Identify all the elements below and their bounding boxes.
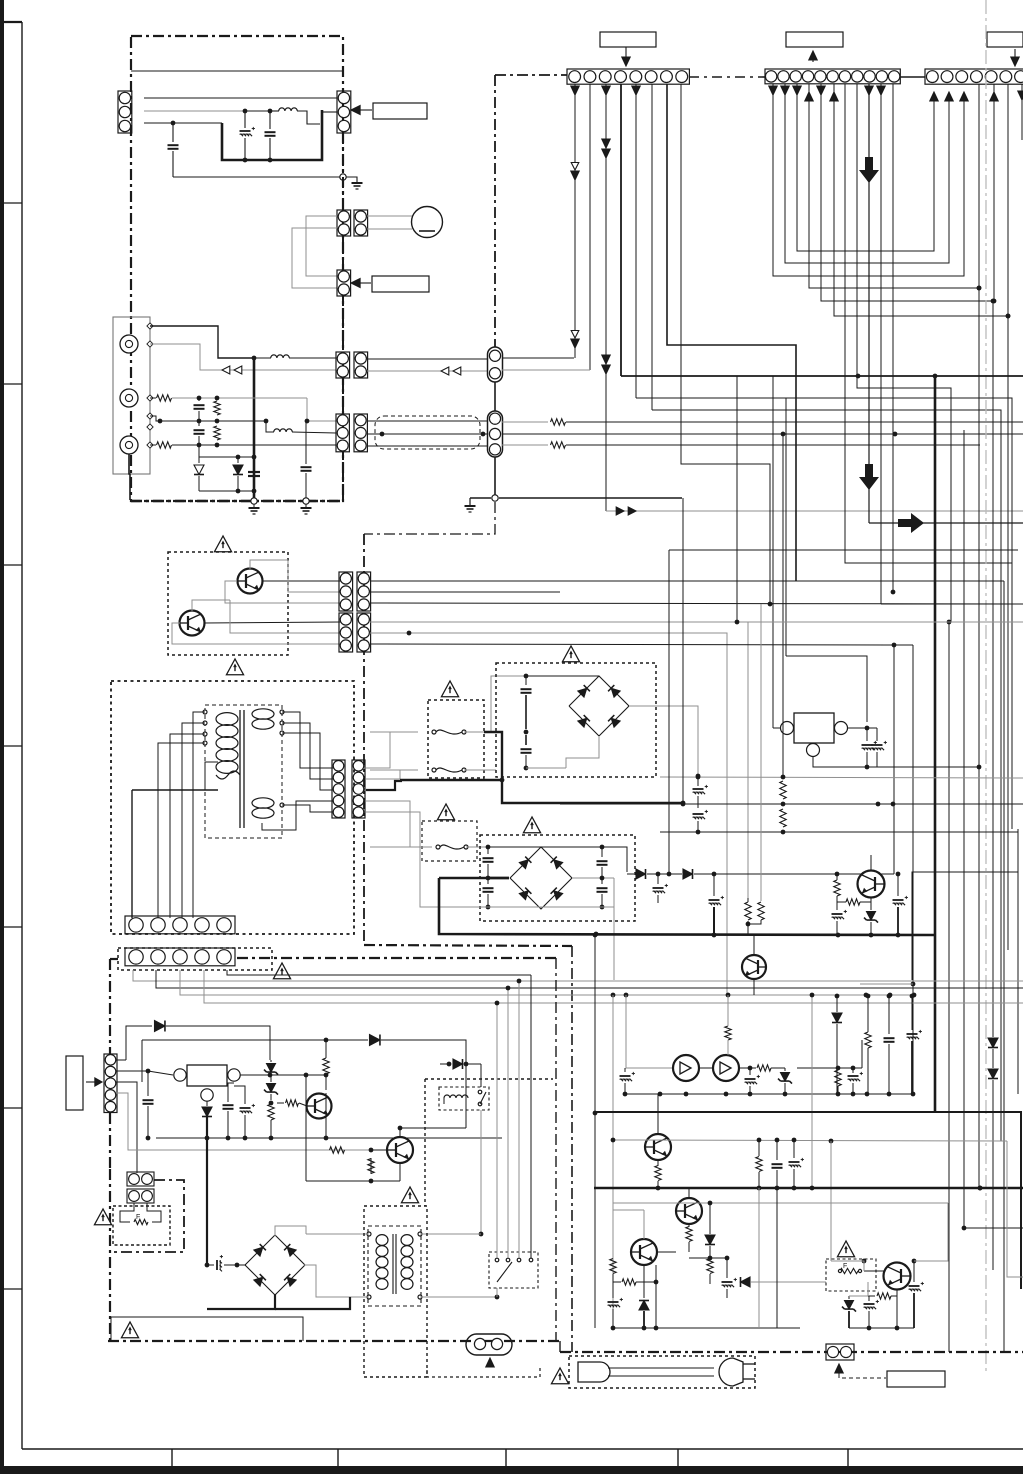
warning triangle above rectifier 2 [523, 817, 540, 833]
signal bus y603 [370, 603, 1018, 604]
resistor R401 [268, 1104, 274, 1120]
connector pair CN106a (2-pin) [336, 352, 350, 378]
bottom rail right section [849, 1327, 914, 1329]
wire Q503 emitter [655, 1265, 657, 1302]
wire y550 [669, 549, 1018, 551]
signal bus y592 [370, 591, 560, 593]
transformer T101 dashed box [205, 705, 282, 838]
connector CN208a (3-pin) [339, 572, 353, 611]
fusible resistor FR501 (F) [840, 1268, 858, 1273]
bottom border dash-dot left part [108, 1340, 560, 1342]
IC301 regulator body [794, 713, 834, 743]
connector pair CN107a (3-pin) [336, 414, 349, 452]
common terminal jog wire [150, 416, 160, 421]
wire from gray rail to Q504 section [914, 1203, 948, 1261]
chassis ground symbol [346, 177, 357, 182]
bridge2 output caps [597, 860, 608, 862]
zener ZD503 [849, 1295, 861, 1297]
outer border dash-dot [364, 945, 572, 946]
heavy dash-dot border from CN401 left [110, 958, 118, 960]
C508 electrolytic [867, 1296, 869, 1300]
CN302 riser to fuse F303 [366, 801, 424, 847]
CN302 pin5 wire down (gray) [366, 812, 432, 907]
fuse F301 [370, 731, 417, 733]
resistor R103 (vertical) [214, 401, 220, 415]
label box CN105 [372, 276, 429, 292]
bottom rail y1094 [625, 1093, 914, 1095]
transistor Q202 [180, 611, 205, 636]
wire into FR501 [831, 1271, 840, 1282]
wire mid pin of P102 [502, 433, 895, 435]
motor M101 [412, 207, 443, 238]
transistor Q301 [858, 871, 885, 898]
bridge rectifier D303 (diamond) [569, 676, 629, 736]
rail y1228 right [964, 1227, 1023, 1229]
zener ZD502 [643, 1265, 645, 1298]
output caps C307 C308 (electrolytic pair) [866, 728, 868, 741]
label box CN203 [987, 32, 1023, 47]
primary tap wires to connector row [193, 712, 205, 918]
R505 vertical [610, 1259, 616, 1274]
loop wire CN103 pin1 to CN105 [306, 216, 337, 276]
C502 electrolytic [749, 1068, 751, 1075]
inductor L103 [274, 429, 293, 432]
CN201 pin6 drop wire [651, 84, 653, 410]
wire to regulator IC401 [116, 1070, 148, 1072]
gray rail under bridge2 [430, 906, 614, 908]
junction x595 y935 [594, 934, 596, 936]
ground symbol 2 below board [305, 504, 307, 507]
CN302 riser to fuse F301 [366, 732, 418, 768]
warning triangle above FR501 [837, 1241, 854, 1257]
R502 vertical [835, 1070, 841, 1086]
T401 primary winding [376, 1235, 388, 1246]
connector row CN401 (5-pin) in dotted box [118, 948, 272, 970]
gray wire y592 junction [891, 590, 896, 595]
arrow up to CN404 [838, 1366, 840, 1374]
photocoupler PC401 (circle with triangle) [673, 1055, 699, 1081]
T101 secondary top winding [252, 709, 274, 719]
signal bus y581 to right [370, 580, 1004, 582]
R501 after coupler [739, 1067, 756, 1069]
primary start wire [205, 762, 218, 790]
arrow from connector up to label [812, 53, 814, 62]
connector CN209b (3-pin) [357, 613, 371, 652]
diode D306 [683, 869, 693, 879]
ground return wire to chassis [173, 176, 340, 178]
dashed box fusible resistor [113, 1206, 170, 1245]
AC socket J401 [466, 1334, 512, 1355]
IC301 output terminal [835, 722, 848, 735]
T401 secondary winding [401, 1235, 413, 1246]
wire bottom pin thick path [144, 122, 222, 124]
T101 core [239, 710, 241, 828]
wire long vertical x759 x777 [758, 1188, 760, 1328]
wire x993 bottom [993, 1080, 1023, 1268]
CN202 pin3 wire staircase [797, 84, 934, 251]
R504 vertical on rail [756, 1157, 762, 1172]
electrolytic C501 [624, 1068, 626, 1072]
svg-text:F: F [136, 1214, 140, 1221]
CN203 pin5 drop [993, 84, 995, 301]
connector CN104 (2-pin) [354, 210, 368, 236]
Q401 emitter to rail [325, 1093, 327, 1118]
bus y604 [370, 603, 1023, 605]
diode D404 at relay [440, 1063, 451, 1065]
AC power switch SW401 (dashed box) [489, 1252, 538, 1288]
Q402 wires [399, 1128, 401, 1137]
warning triangle above fuse box 2 [437, 804, 454, 820]
bus vertical x979 [978, 288, 980, 1188]
transistor Q402 [387, 1137, 413, 1163]
R506 horizontal [613, 1281, 621, 1283]
fold line (light gray dash-dot) [985, 0, 987, 1372]
Q504 wires [868, 1271, 884, 1276]
R402 horizontal to Q401 base [277, 1102, 284, 1104]
C506 electrolytic [612, 1274, 614, 1298]
capacitor C108 [305, 421, 307, 464]
bus vertical x964 [963, 430, 965, 1228]
bus y358 from jack area to pin1 [502, 357, 574, 359]
dotted box around T401 area [364, 1206, 427, 1377]
connector CN203 (7-pin row) [925, 69, 1023, 84]
CN203 pin7 drop [1021, 84, 1023, 140]
warning triangle above fuse box 1 [441, 681, 458, 697]
resistor R403 (vertical right) [323, 1058, 329, 1074]
resistor R301 (vertical) [780, 781, 786, 799]
ground bus wire to right [499, 497, 682, 499]
warning triangle right of CN401 [273, 963, 290, 979]
vertical wire x605 left rail [612, 995, 614, 1328]
page border left thick bar [0, 0, 4, 1474]
wire rail 1258 to 1282 [656, 1281, 710, 1283]
CN201 pin1 drop wire [574, 84, 576, 358]
branch x894 to Q301 [893, 645, 895, 874]
resistor pair R307 R308 [745, 902, 751, 920]
left margin column [21, 22, 23, 1449]
gray rail 984 [860, 983, 913, 985]
fusible resistor FR401 [120, 1203, 134, 1222]
junction dots on AC line [171, 121, 176, 126]
C310 electrolytic [896, 872, 901, 877]
junction dots right bundle [977, 286, 982, 291]
section border corner at bottom of P102 [364, 502, 495, 534]
wires to motor (gray) [367, 215, 412, 217]
dotted fuse box F303 [422, 821, 477, 861]
dashed leader to label [839, 1374, 886, 1378]
protection diode D102 (zener) [237, 457, 239, 463]
label box CN202 [786, 32, 843, 47]
staircase return right [912, 832, 1018, 980]
capacitor C103 (electrolytic) [244, 111, 246, 128]
CN202 pin5 wire [821, 84, 993, 301]
input cap C401 [147, 1071, 149, 1096]
verticals to bottom rail [655, 1302, 657, 1328]
heavy return path of bridge2 [439, 878, 935, 935]
signal bus y644 [370, 644, 913, 645]
inline connector P102 (3-pin oval) [488, 411, 503, 457]
bus vertical x1012 [1011, 563, 1013, 829]
dotted box bridge rectifier 2 [480, 835, 635, 921]
bottom title block row [22, 1448, 1023, 1450]
signal bus y622 (gray) [370, 622, 748, 898]
wire J101 center (gray) with arrows [150, 344, 336, 370]
board border bottom (dash-dot) [131, 500, 343, 502]
rail y1277 right [1007, 1141, 1023, 1277]
zener ZD501 [781, 1073, 790, 1082]
photocoupler PC402 [713, 1055, 739, 1081]
rail y1203 gray [613, 1202, 948, 1204]
diode D401 [116, 1059, 126, 1061]
junction x913 y984 [911, 982, 916, 987]
chassis node (open circle) [340, 174, 346, 180]
connector CN103 (2-pin) [337, 210, 351, 236]
signal wire with arrows to right (gray) [606, 510, 1023, 512]
C505 electrolytic [793, 1140, 795, 1158]
left margin row dividers [2, 202, 22, 204]
ground bus node (open circle) [492, 495, 498, 501]
vertical gray pair to bottom [758, 1188, 760, 1328]
cap C306 (electrolytic) [713, 874, 715, 896]
vertical wire x669 [668, 550, 670, 874]
wire y388 [857, 387, 951, 389]
diode D302 [988, 1069, 998, 1079]
capacitor C511 electrolytic [911, 996, 913, 1030]
vertical wire x595 [594, 935, 596, 1328]
connector CN208b (3-pin) [357, 572, 371, 611]
wires at 1068 right [797, 1067, 862, 1069]
gray rail y777 [660, 777, 1023, 778]
diode D402 on ground leg [206, 1101, 208, 1106]
CN201 pin5 drop wire [635, 84, 637, 398]
shielded cable wires [367, 420, 488, 422]
T401 primary wires [306, 1233, 369, 1235]
IC301 ground terminal [807, 744, 820, 757]
RCA jack J101 [120, 335, 138, 353]
section border vertical dash-dot x495 [494, 75, 496, 347]
gray rail y1140 [613, 1140, 1007, 1141]
IC301 top bypass wire [786, 656, 867, 722]
thin wire step to border [111, 1317, 303, 1341]
inner horizontal line of top-left box [131, 70, 343, 72]
protection diode D101 (open) [198, 445, 200, 457]
diode D503 (vertical, to rail) [836, 996, 838, 1012]
resistor R302 (vertical) [780, 809, 786, 827]
T101 primary tap terminals [203, 710, 207, 714]
transistor Q401 [307, 1094, 332, 1119]
bus vertical x1008 [1007, 316, 1009, 950]
dotted enclosure bottom right of socket [427, 1366, 540, 1377]
rail y935 junctions [593, 933, 598, 938]
CN202 pin4 wire [809, 84, 979, 288]
vertical wire x831 to FR501 [830, 1141, 832, 1261]
dash-dot jog around CN403 [110, 1180, 184, 1252]
arrow below AC socket [489, 1360, 491, 1366]
arrow from label down [625, 47, 627, 60]
connector CN302a (5-pin vertical) [332, 760, 345, 818]
thick return from CN302 to bus [401, 780, 403, 781]
RCA jack J102 [120, 389, 138, 407]
dash-dot link CN201 to CN202 [689, 76, 765, 78]
left border vertical dash-dot [109, 1169, 111, 1341]
R304 horizontal [846, 899, 860, 905]
zener ZD401 [270, 1060, 272, 1062]
capacitor C301 [524, 674, 529, 679]
diode D501 [709, 1203, 711, 1234]
switch wires from top [496, 1003, 498, 1258]
fuse F303 [370, 846, 432, 848]
bus vertical x949 [948, 622, 950, 1352]
resistor R104 (vertical) [214, 426, 220, 440]
vertical wire x783 from bus [782, 434, 784, 777]
C509 electrolytic [912, 1259, 917, 1264]
rail top transistor section [626, 995, 673, 1068]
cap C402 [227, 1086, 229, 1102]
CN401 fan-out wires [133, 970, 1023, 981]
connector CN201 (8-pin row) [567, 69, 689, 84]
CN202 link to CN203 [900, 76, 925, 78]
bridge2 top wire to right [541, 847, 627, 872]
capacitor C104 [269, 111, 271, 129]
Q502 wiring [688, 1188, 690, 1198]
top rail y1068 wire to right vertical [861, 1040, 863, 1068]
arrow to CN105 label [357, 282, 371, 284]
warning triangle at bottom left [121, 1322, 138, 1338]
thick black return bus [484, 732, 502, 780]
cap C403 electrolytic [244, 1090, 246, 1104]
bridge rectifier D405 (diamond) [245, 1235, 305, 1295]
bus vertical x1018 [1017, 829, 1019, 1094]
T101 primary winding [216, 713, 238, 726]
bottom border dash-dot right part [559, 1341, 561, 1352]
long wire with diode D403 [142, 1039, 368, 1041]
IC401 output terminal [228, 1069, 240, 1081]
zener ZD402 [267, 1084, 276, 1093]
IC401 ground terminal [201, 1089, 213, 1101]
T401 secondary wires [420, 1233, 481, 1235]
wire from L101 to connector jog [297, 111, 320, 124]
bottom rail y1328 [613, 1327, 800, 1329]
CN202 pin9 drop with power flow arrows [868, 84, 870, 523]
CN202 pin11 drop [892, 84, 894, 592]
CN302 pin3 thick return wire [366, 781, 402, 790]
transformer T401 (dashed box) [368, 1226, 421, 1306]
left dash-dot inner border segment [555, 958, 557, 1341]
label box CN402 [66, 1056, 83, 1110]
arrow from label to connector [1014, 49, 1016, 60]
thick bus y1188 [594, 1187, 1023, 1189]
wire x669 rail [668, 550, 670, 580]
RCA jack J103 [120, 436, 138, 454]
capacitor C101 [172, 123, 174, 142]
R405 vertical [369, 1148, 374, 1153]
bus wire y398 [636, 398, 1012, 563]
IC401 output wire [240, 1074, 326, 1076]
filter cap C303 (electrolytic) [696, 774, 701, 779]
relay coil [444, 1095, 468, 1098]
IC401 input terminal [174, 1069, 186, 1081]
arrow into CN402 [86, 1081, 98, 1083]
connector CN209a (3-pin) [339, 613, 353, 652]
wire x683 [682, 803, 684, 804]
power flow wire right [869, 522, 1023, 524]
capacitor C510 vertical [888, 996, 890, 1034]
fuse F302 [370, 769, 417, 771]
capacitor C105 [198, 398, 200, 401]
bridge1 wiring [526, 675, 599, 677]
warning triangle above transformer box [226, 659, 243, 675]
vertical wire x913 [912, 645, 914, 1094]
connector pair CN403 (2x2) [127, 1172, 154, 1186]
transistor Q310 [742, 955, 766, 979]
R404 to Q402 base [330, 1147, 345, 1153]
IC301 ground wire [813, 757, 978, 767]
capacitor C302 [525, 735, 527, 745]
capacitor C107 on bus [248, 471, 260, 473]
Q201 wiring [250, 560, 288, 569]
bottom rail of regulator section [156, 1137, 502, 1139]
ground symbol below board [253, 504, 255, 507]
R507 vertical [707, 1259, 713, 1274]
connector row CN301 (5-pin) [125, 916, 235, 934]
smoothing cap C305 (electrolytic) [657, 874, 659, 884]
resistor R309 vertical to PC402 [725, 1026, 731, 1040]
wires between couplers [699, 1067, 713, 1069]
CN203 pin6 drop [1007, 84, 1009, 316]
relay RY401 (dashed box) [439, 1087, 489, 1110]
transistor Q201 [238, 569, 263, 594]
capacitor C106 [198, 421, 200, 426]
wire J103 through resistor R102 [150, 444, 156, 446]
T101 secondary terminals [280, 710, 284, 714]
dotted box AC cord [569, 1356, 755, 1388]
warning triangle above rectifier box [562, 646, 579, 662]
warning triangle above transistor box [214, 536, 231, 552]
CN202 pin1 wire staircase [773, 84, 964, 276]
transistor Q504 [884, 1263, 911, 1290]
bus wire y410 [652, 410, 1001, 1141]
T401 terminals [367, 1232, 371, 1236]
thick vertical supply to bridge [206, 1113, 208, 1265]
warning triangle at AC cord [551, 1368, 568, 1384]
shielded cable (dashed outline) [375, 416, 480, 449]
heavy path y1112 [595, 1112, 1021, 1289]
gray rail y995 continuation [613, 994, 914, 996]
junction on y633 [407, 631, 412, 636]
relay contact wire down [480, 1110, 482, 1234]
C507 electrolytic [726, 1258, 728, 1278]
open circles on board edge [251, 498, 257, 504]
Q501 collector up [657, 1094, 659, 1134]
transistor Q503 [631, 1239, 657, 1265]
connector CN102 (3-pin, right) [337, 91, 351, 133]
relay contact [478, 1090, 482, 1094]
wire CN402 low pins [116, 1082, 137, 1173]
dashed box power amp drivers [168, 552, 288, 655]
IC301 input wire [773, 727, 781, 729]
diode D301 [988, 1038, 998, 1048]
resistor R510 vertical [867, 996, 869, 1032]
bridge input cap C404 (electrolytic horizontal) [207, 1264, 214, 1266]
board border right vertical (dash-dot) [342, 133, 344, 210]
arrow to CN102 label [357, 109, 372, 111]
transistor Q502 [676, 1198, 702, 1224]
wire CN106 to inline plug (top) [367, 358, 488, 360]
dotted box bridge rectifier 1 [496, 663, 656, 777]
connector pair CN107b (3-pin) [354, 414, 367, 452]
CN201 pin3 drop wire [605, 84, 607, 511]
panel terminal diamonds [147, 323, 153, 329]
